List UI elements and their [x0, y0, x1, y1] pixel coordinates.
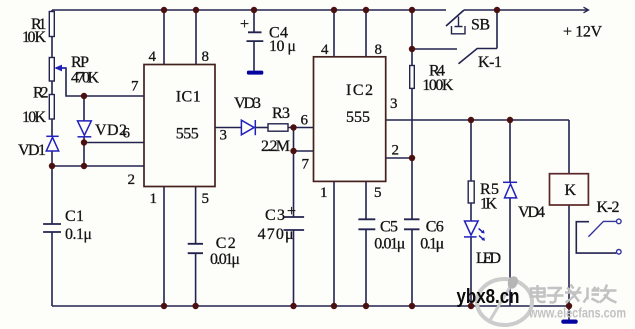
svg-text:+: + [287, 203, 296, 220]
svg-text:VD1: VD1 [18, 142, 46, 159]
svg-text:VD3: VD3 [234, 95, 261, 112]
switch K-1 blade [459, 49, 498, 64]
wire VD2 column x=84 [83, 96, 85, 121]
wire left column x=52 [51, 10, 53, 12]
watermark chinese characters [531, 285, 617, 303]
svg-text:3: 3 [390, 96, 398, 112]
junction IC2 pin2 C6 [409, 155, 415, 161]
junction R3 out pin6 IC2 [290, 124, 296, 130]
wire IC2 pin8 riser [365, 10, 367, 57]
capacitor C1 [43, 224, 61, 232]
node +12V arrowhead [584, 7, 589, 13]
junction rail SB/K-1 [494, 7, 500, 13]
wire R3 to IC2 pin6 [288, 127, 314, 129]
wire IC2 pin2 stub [386, 157, 412, 159]
wire IC2 pin4 riser [333, 10, 335, 57]
svg-text:SB: SB [471, 17, 490, 34]
svg-text:2.2M: 2.2M [261, 138, 290, 155]
wire C3 column [293, 151, 295, 217]
resistor R3 [268, 124, 288, 131]
op-amp IC2 555 box [314, 57, 386, 182]
resistor R1 [49, 12, 54, 37]
junction bottom C2 [192, 303, 198, 309]
junction bottom C6 [409, 303, 415, 309]
wire top rail right to +12V [464, 9, 587, 11]
svg-text:4: 4 [149, 49, 157, 65]
wire IC2 pin5 riser with C5 [365, 182, 367, 220]
svg-text:LED: LED [476, 250, 501, 267]
potentiometer RP arrow [56, 67, 66, 69]
svg-text:7: 7 [131, 79, 139, 95]
svg-text:555: 555 [176, 126, 199, 143]
svg-text:0.01μ: 0.01μ [374, 236, 405, 253]
wire K-1 left [412, 48, 457, 50]
junction rail IC2 pin4 [331, 7, 337, 13]
svg-text:8: 8 [202, 49, 210, 65]
wire IC1 pin8 riser [195, 10, 197, 65]
capacitor C3 [284, 217, 305, 230]
junction VD1 anode pin2 [49, 163, 55, 169]
potentiometer RP body [49, 58, 54, 82]
wire IC1 pin2 [52, 165, 144, 167]
svg-text:3: 3 [220, 128, 228, 144]
svg-text:K: K [565, 182, 577, 199]
switch SB blade [446, 10, 464, 26]
LED [464, 221, 483, 240]
junction rail IC1 pin8 [193, 7, 199, 13]
svg-text:R2: R2 [33, 85, 49, 102]
watermark logo circle (decorative watermark) [477, 279, 532, 325]
resistor R2 [49, 95, 54, 120]
junction R4 top K-1 [409, 46, 415, 52]
svg-text:IC2: IC2 [346, 82, 373, 99]
wire C4 top [253, 10, 255, 32]
junction pin3 line VD4 [507, 117, 513, 123]
junction VD2 branch pin2 [81, 163, 87, 169]
junction bottom LED [468, 303, 474, 309]
diode VD1 [46, 136, 58, 151]
junction VD2 cathode pin6 [81, 139, 87, 145]
junction rail C4 [251, 7, 257, 13]
wire R5 LED column x=471 [470, 120, 472, 181]
svg-text:C1: C1 [65, 208, 84, 225]
svg-text:1K: 1K [480, 196, 497, 213]
svg-text:10 μ: 10 μ [269, 38, 296, 55]
junction pin3 line R5 [468, 117, 474, 123]
op-amp IC1 555 box [144, 65, 215, 187]
svg-text:5: 5 [202, 191, 210, 207]
switch SB actuator [452, 17, 466, 34]
svg-text:C5: C5 [380, 219, 398, 236]
svg-text:K-2: K-2 [597, 199, 620, 216]
junction C3 top pin7 IC2 [290, 148, 296, 154]
capacitor C5 [358, 219, 375, 229]
svg-text:www.elecfans.com: www.elecfans.com [528, 306, 626, 321]
svg-text:C3: C3 [265, 207, 285, 224]
junction RP wiper pin7 [81, 93, 87, 99]
capacitor C2 [188, 244, 203, 253]
wire top rail left [52, 9, 446, 11]
switch K-2 frame [576, 222, 616, 253]
wire IC2 pin7 [294, 150, 314, 152]
wire R3 junction vertical [293, 128, 295, 152]
wire IC1 pin4 riser [163, 10, 165, 65]
wire IC2 pin1 riser [333, 182, 335, 307]
wire K column [568, 120, 570, 174]
svg-text:0.1μ: 0.1μ [420, 236, 444, 253]
wire IC1 pin6 [84, 142, 144, 144]
switch K-2 contacts [588, 219, 621, 254]
wire R4 top riser [411, 10, 413, 49]
svg-text:C2: C2 [216, 235, 236, 252]
wire VD3 to R3 [255, 127, 268, 129]
junction rail R4 [409, 7, 415, 13]
wire RP wiper to pin7 [56, 68, 144, 96]
svg-text:K - 1: K - 1 [478, 54, 502, 71]
ground bar under C4 [253, 41, 255, 70]
wire IC1 pin3 to VD3 [215, 127, 241, 129]
svg-text:ybx8.cn: ybx8.cn [457, 286, 520, 308]
junction rail IC1 pin4 [161, 7, 167, 13]
svg-text:0.01μ: 0.01μ [210, 251, 240, 268]
svg-text:C6: C6 [426, 219, 444, 236]
svg-text:5: 5 [374, 185, 382, 201]
diode VD4 [503, 182, 517, 198]
relay K box [550, 174, 589, 205]
svg-text:IC1: IC1 [176, 89, 201, 106]
svg-text:2: 2 [128, 172, 136, 188]
junction bottom K ground [566, 303, 572, 309]
wire VD4 column x=510 [509, 120, 511, 182]
svg-text:100K: 100K [422, 77, 453, 94]
junction bottom IC2 pin1 [331, 303, 337, 309]
resistor R4 [410, 66, 415, 89]
wire SB right riser x=497 [496, 10, 498, 49]
junction rail IC2 pin8 [363, 7, 369, 13]
svg-text:R3: R3 [272, 105, 290, 122]
wire ground stub under K [568, 306, 570, 320]
diode VD3 [241, 120, 255, 135]
svg-text:2: 2 [392, 143, 400, 159]
capacitor C6 [404, 219, 420, 229]
junction bottom C3 [290, 303, 296, 309]
svg-text:VD4: VD4 [518, 204, 545, 221]
pin number labels [123, 42, 400, 207]
svg-text:555: 555 [346, 109, 370, 126]
svg-text:6: 6 [301, 113, 309, 129]
wire R4 C6 column x=412 [411, 49, 413, 66]
svg-text:4: 4 [321, 42, 329, 58]
svg-text:10K: 10K [22, 109, 46, 126]
svg-text:470μ: 470μ [258, 226, 294, 243]
wire IC1 pin5 riser with C2 [195, 187, 197, 244]
diode VD2 [78, 121, 92, 137]
svg-text:8: 8 [375, 42, 383, 58]
svg-text:470K: 470K [71, 70, 99, 87]
svg-text:1: 1 [150, 191, 158, 207]
wire IC2 pin3 line [386, 119, 569, 121]
svg-text:RP: RP [71, 54, 89, 71]
svg-text:1: 1 [320, 185, 328, 201]
svg-text:+ 12V: + 12V [563, 24, 602, 41]
svg-text:0.1μ: 0.1μ [65, 226, 92, 243]
junction bottom C5 [363, 303, 369, 309]
ground bar under K [561, 320, 577, 324]
wire bottom rail [52, 305, 569, 307]
capacitor C4 [247, 32, 264, 41]
svg-text:7: 7 [302, 157, 310, 173]
junction bottom IC1 pin1 [161, 303, 167, 309]
wire IC1 pin1 riser [163, 187, 165, 307]
resistor R5 [468, 181, 474, 203]
svg-text:6: 6 [123, 126, 131, 142]
svg-text:+: + [240, 16, 249, 33]
svg-text:10 K: 10 K [22, 29, 46, 46]
